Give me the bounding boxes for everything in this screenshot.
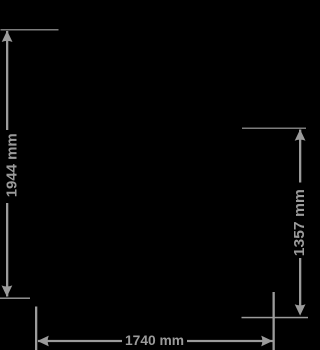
right dimension: top extension line: [242, 128, 306, 129]
bottom dimension: horizontal line left segment: [38, 340, 122, 342]
right dimension: up arrow: [295, 129, 306, 140]
bottom dimension: left arrow: [37, 336, 48, 347]
left dimension: bottom extension line: [0, 298, 30, 299]
svg-text:1944 mm: 1944 mm: [4, 133, 20, 197]
right dimension: vertical line lower segment: [299, 258, 301, 306]
svg-text:1740 mm: 1740 mm: [125, 333, 184, 349]
left dimension: vertical line upper segment: [6, 31, 8, 130]
left dimension: vertical line lower segment: [6, 203, 8, 297]
left dimension: down arrow: [2, 285, 13, 296]
right dimension: vertical line upper segment: [299, 130, 301, 183]
bottom dimension: right extension line: [273, 292, 275, 350]
bottom dimension: horizontal line right segment: [187, 340, 273, 342]
left dimension: top extension line: [1, 29, 59, 30]
left dimension: up arrow: [2, 31, 13, 42]
right dimension: down arrow: [295, 304, 306, 315]
bottom dimension: right arrow: [261, 336, 272, 347]
right dimension: bottom extension line: [242, 317, 309, 319]
svg-text:1357 mm: 1357 mm: [292, 189, 308, 256]
bottom dimension: left extension line: [35, 307, 37, 350]
